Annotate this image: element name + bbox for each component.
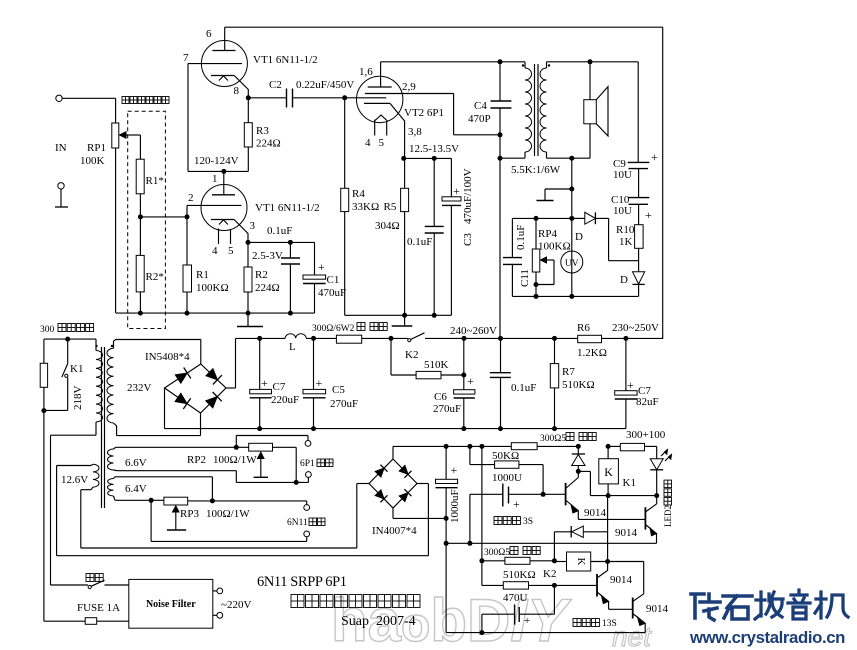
svg-text:8: 8 — [234, 85, 240, 97]
mains terminals 220V — [213, 590, 217, 592]
VT2 screen grid — [365, 93, 454, 95]
T2 polarity marks — [522, 64, 524, 66]
capacitor 1000uF — [445, 446, 447, 479]
T1 polarity marks — [95, 345, 97, 347]
svg-text:+: + — [627, 378, 634, 392]
bridge rectifier IN4007 frame — [369, 459, 417, 508]
svg-text:C1: C1 — [327, 274, 340, 286]
resistor R5 — [404, 158, 406, 188]
ground symbol stage2 — [404, 315, 406, 326]
minus rail — [446, 542, 656, 544]
label delay 3S — [494, 517, 502, 525]
VT1b heater pins 4 5 — [218, 229, 220, 245]
transistor Q4 9014 — [632, 598, 634, 619]
right border wire — [662, 27, 664, 338]
dashed selection box — [128, 111, 166, 328]
svg-text:R3: R3 — [256, 125, 269, 137]
mains switch — [88, 585, 91, 588]
6N11 heater terminal B — [304, 531, 310, 537]
secondary ground hook — [571, 158, 573, 296]
fuse FUSE 1A — [85, 618, 97, 625]
svg-text:12.5-13.5V: 12.5-13.5V — [409, 143, 459, 155]
potentiometer RP4 100K — [535, 218, 537, 249]
svg-text:10U: 10U — [613, 169, 632, 181]
svg-text:3S: 3S — [523, 517, 533, 527]
svg-text:6.6V: 6.6V — [125, 457, 147, 469]
triode VT1a envelope — [201, 41, 247, 87]
noise filter box — [129, 579, 213, 628]
svg-text:224Ω: 224Ω — [255, 282, 280, 294]
label balance note — [122, 97, 129, 104]
svg-text:R10: R10 — [616, 224, 635, 236]
RP2 wiper ground — [258, 452, 265, 458]
svg-text:220uF: 220uF — [271, 394, 299, 406]
svg-text:100Ω/1W: 100Ω/1W — [206, 508, 250, 520]
svg-text:0.1uF: 0.1uF — [511, 382, 536, 394]
svg-text:304Ω: 304Ω — [375, 220, 400, 232]
potentiometer RP2 hum — [249, 443, 273, 451]
wire RP4 top — [512, 217, 571, 219]
VT2 cathode — [364, 102, 390, 104]
resistor 510K timing — [481, 561, 483, 586]
svg-text:+: + — [316, 376, 323, 390]
6N11 heater terminal A — [306, 501, 308, 505]
resistor 300ohm 5 parallel B — [482, 560, 505, 562]
svg-text:6N11: 6N11 — [287, 518, 308, 528]
svg-text:3: 3 — [250, 220, 256, 232]
svg-text:net: net — [612, 621, 652, 650]
svg-text:K2: K2 — [405, 349, 418, 361]
svg-text:9014: 9014 — [584, 507, 607, 519]
resistor 300 mains — [43, 339, 45, 363]
svg-text:9014: 9014 — [610, 574, 633, 586]
svg-text:5.5K:1/6W: 5.5K:1/6W — [511, 164, 561, 176]
svg-text:9014: 9014 — [615, 527, 638, 539]
svg-text:300Ω5: 300Ω5 — [540, 434, 566, 444]
mains switch side wire — [51, 434, 97, 436]
svg-text:82uF: 82uF — [636, 396, 659, 408]
node R1*/R2* — [138, 214, 143, 219]
svg-text:218V: 218V — [72, 386, 84, 411]
mains left wire fuse side — [43, 411, 45, 622]
svg-text:~220V: ~220V — [221, 599, 251, 611]
VT1b grid pin2 — [187, 204, 242, 206]
svg-text:4: 4 — [212, 245, 218, 257]
switch K2 contact — [408, 339, 411, 342]
svg-text:C5: C5 — [332, 384, 345, 396]
svg-text:RP3: RP3 — [180, 508, 199, 520]
flyback diode relay K1 — [577, 446, 579, 454]
svg-text:1K: 1K — [619, 236, 633, 248]
bridge2 AC wires — [357, 483, 369, 485]
svg-text:+: + — [451, 463, 458, 477]
svg-text:LED2: LED2 — [663, 505, 673, 527]
svg-text:R1: R1 — [196, 269, 209, 281]
wire grid pin7 down — [187, 64, 189, 172]
VT1a grid — [188, 63, 242, 65]
secondary bottom wire — [589, 124, 591, 158]
diode D upper — [572, 217, 585, 219]
svg-text:270uF: 270uF — [433, 403, 461, 415]
main ground rail — [165, 428, 626, 430]
svg-text:120-124V: 120-124V — [194, 155, 239, 167]
resistor R2 — [247, 242, 249, 267]
svg-text:1: 1 — [212, 173, 218, 185]
svg-text:224Ω: 224Ω — [256, 138, 281, 150]
VT2 plate wire — [381, 61, 525, 63]
bridge2 plus wire — [392, 446, 394, 459]
choke L — [285, 334, 306, 339]
resistor R2* — [139, 217, 141, 256]
svg-text:510KΩ: 510KΩ — [503, 569, 536, 581]
transformer T1 primary 218V — [95, 339, 97, 350]
input ground terminal — [58, 183, 64, 189]
svg-text:R2*: R2* — [146, 271, 164, 283]
switch K1 contact — [67, 339, 69, 364]
input terminal J1 — [56, 95, 62, 101]
svg-text:470uF: 470uF — [318, 287, 346, 299]
6.4V bottom wire RP3 — [115, 499, 164, 501]
svg-text:K1: K1 — [70, 363, 83, 375]
ground rail stage1 — [116, 312, 315, 314]
resistor R10 1K — [638, 204, 640, 224]
svg-text:VT1 6N11-1/2: VT1 6N11-1/2 — [253, 54, 318, 66]
svg-text:L: L — [289, 341, 296, 353]
svg-text:+: + — [645, 208, 652, 222]
svg-text:Noise Filter: Noise Filter — [146, 599, 196, 610]
VT2 control grid — [345, 97, 387, 99]
svg-text:232V: 232V — [127, 382, 152, 394]
screen wire to B+ — [453, 94, 455, 135]
6P1 heater terminal A — [305, 441, 311, 447]
node X2 column — [553, 532, 555, 561]
svg-text:9014: 9014 — [646, 603, 669, 615]
plus feed column block2 — [481, 446, 483, 560]
resistor R1* — [136, 159, 144, 194]
RP3 wiper ground — [173, 506, 180, 512]
resistor 50K — [469, 446, 471, 464]
DC plus rail — [393, 445, 511, 447]
6N11 heater lower wire — [150, 500, 152, 541]
svg-text:K: K — [575, 558, 587, 566]
svg-text:RP1: RP1 — [87, 142, 106, 154]
svg-text:+: + — [513, 497, 520, 511]
svg-text:C6: C6 — [434, 391, 447, 403]
VT1a cathode — [211, 75, 234, 77]
T1 core — [101, 347, 103, 508]
bottom minus rail — [446, 632, 645, 634]
capacitor C6 270uF — [463, 338, 465, 389]
block1 output to block2 column — [607, 496, 609, 562]
svg-text:2: 2 — [188, 192, 194, 204]
svg-text:K1: K1 — [623, 477, 636, 489]
svg-text:240~260V: 240~260V — [450, 325, 497, 337]
bridge minus wire — [164, 388, 166, 429]
svg-text:RP4: RP4 — [538, 228, 557, 240]
svg-text:50KΩ: 50KΩ — [492, 450, 519, 462]
6P1 heater terminal B — [306, 472, 312, 478]
svg-text:R1*: R1* — [146, 175, 164, 187]
svg-text:+: + — [318, 260, 325, 274]
capacitor 0.1uF cathode2 — [433, 158, 435, 226]
blue logo crystalradio — [691, 590, 848, 620]
svg-text:510K: 510K — [424, 359, 449, 371]
svg-text:VT1 6N11-1/2: VT1 6N11-1/2 — [255, 202, 320, 214]
svg-text:13S: 13S — [602, 619, 617, 629]
capacitor 1000U timing — [469, 494, 471, 543]
resistor 300ohm/6W — [336, 335, 361, 343]
VT1b plate pin1 — [223, 171, 225, 194]
resistor R1 — [186, 217, 188, 265]
svg-text:100Ω/1W: 100Ω/1W — [213, 454, 257, 466]
capacitor C4 470P — [499, 62, 501, 101]
svg-text:C4: C4 — [474, 100, 487, 112]
svg-text:R5: R5 — [384, 201, 397, 213]
wire Q1 collector to relay node — [578, 470, 590, 472]
svg-text:Suap 2007-4: Suap 2007-4 — [341, 614, 416, 629]
svg-text:470P: 470P — [468, 113, 491, 125]
svg-text:C3: C3 — [462, 233, 474, 246]
resistor 510K bypass — [390, 338, 392, 375]
svg-text:C7: C7 — [273, 381, 286, 393]
LED chain — [650, 459, 663, 470]
T2 secondary — [546, 62, 548, 68]
capacitor C3 470uF/100V — [450, 158, 452, 196]
top B+ rail — [225, 26, 663, 28]
title line 2 — [291, 595, 304, 608]
triode VT1b envelope — [201, 185, 247, 231]
capacitor C10 10U — [638, 169, 640, 198]
transistor Q3 9014 — [596, 574, 598, 597]
node detector — [569, 216, 574, 221]
svg-text:2.5-3V: 2.5-3V — [252, 250, 283, 262]
svg-text:IN: IN — [55, 142, 67, 154]
capacitor 0.1uF filter — [500, 338, 502, 372]
resistor R4 — [344, 98, 346, 189]
svg-text:D: D — [620, 274, 628, 286]
T1 winding 6.6V — [114, 447, 116, 449]
svg-text:300Ω/6W2: 300Ω/6W2 — [312, 324, 355, 334]
6P1 heater upper wire — [235, 436, 237, 448]
VT2 plate — [380, 62, 382, 87]
svg-text:230~250V: 230~250V — [612, 322, 659, 334]
svg-text:C2: C2 — [269, 79, 282, 91]
relay coil K1 — [599, 459, 619, 484]
svg-text:IN4007*4: IN4007*4 — [372, 525, 417, 537]
UV bottom rail — [512, 295, 638, 297]
T2 core — [534, 64, 536, 156]
potentiometer RP3 hum — [164, 497, 188, 505]
wire diode to R10 bottom — [608, 218, 610, 260]
svg-text:12.6V: 12.6V — [61, 474, 88, 486]
flyback diode relay K2 — [554, 531, 571, 533]
transistor Q2 9014 — [644, 507, 646, 529]
node 8 — [246, 95, 251, 100]
capacitor C7 220uF — [257, 336, 262, 341]
svg-text:300: 300 — [40, 325, 55, 335]
svg-text:510KΩ: 510KΩ — [562, 379, 595, 391]
potentiometer RP1 — [115, 98, 117, 123]
svg-text:+: + — [524, 615, 530, 627]
VT2 heater pins 4 5 — [374, 120, 376, 136]
svg-text:1000uF: 1000uF — [449, 489, 461, 523]
T1 secondary 232V — [113, 341, 115, 348]
bridge AC bottom wire — [117, 435, 201, 437]
svg-text:3,8: 3,8 — [408, 126, 422, 138]
svg-text:R6: R6 — [577, 322, 590, 334]
svg-text:100K: 100K — [80, 155, 105, 167]
T1 winding 6.4V — [114, 477, 116, 479]
svg-text:300Ω5: 300Ω5 — [484, 548, 510, 558]
bridge rectifier IN5408 frame — [200, 340, 202, 365]
cathode node line — [404, 157, 452, 159]
svg-text:+: + — [453, 184, 460, 198]
svg-text:K2: K2 — [543, 568, 556, 580]
svg-text:R7: R7 — [562, 366, 575, 378]
svg-text:5: 5 — [228, 245, 234, 257]
svg-text:100KΩ: 100KΩ — [538, 241, 571, 253]
bridge2 minus wire — [392, 508, 394, 518]
svg-text:0.1uF: 0.1uF — [267, 225, 292, 237]
svg-text:0.1uF: 0.1uF — [515, 225, 527, 250]
svg-text:R4: R4 — [352, 188, 365, 200]
node 3 wire — [246, 240, 251, 245]
svg-text:470uF/100V: 470uF/100V — [462, 168, 474, 224]
capacitor C11 0.1uF — [511, 218, 513, 257]
svg-text:10U: 10U — [613, 205, 632, 217]
B+ rail 240-260V — [236, 337, 286, 339]
svg-text:33KΩ: 33KΩ — [352, 201, 379, 213]
label delay 13S — [573, 619, 581, 627]
node C2-grid — [342, 95, 347, 100]
svg-text:1000U: 1000U — [492, 472, 522, 484]
resistor R3 — [247, 98, 249, 123]
output transformer T2 primary — [524, 62, 526, 68]
resistor R7 510K — [554, 338, 556, 363]
svg-text:www.crystalradio.cn: www.crystalradio.cn — [689, 628, 845, 647]
RP1 wiper arrow — [120, 132, 127, 138]
ground symbol stage1 — [247, 313, 249, 326]
svg-text:6: 6 — [206, 28, 212, 40]
resistor 300ohm 5 parallel A — [511, 443, 537, 450]
svg-text:RP2: RP2 — [187, 454, 206, 466]
svg-text:7: 7 — [183, 52, 189, 64]
VT2 beam plates — [374, 115, 388, 122]
svg-text:+: + — [261, 376, 268, 390]
VT1b cathode pin3 — [211, 219, 234, 221]
svg-text:6P1: 6P1 — [300, 459, 315, 469]
capacitor C2 — [248, 97, 286, 99]
6.4V top wire — [115, 476, 212, 478]
svg-text:VT2 6P1: VT2 6P1 — [404, 107, 444, 119]
svg-text:6.4V: 6.4V — [125, 483, 147, 495]
speaker — [589, 62, 591, 100]
svg-text:5: 5 — [379, 137, 385, 149]
svg-text:K: K — [604, 465, 613, 479]
resistor R6 1.2K — [578, 335, 602, 342]
capacitor 470U timing — [482, 613, 515, 615]
svg-text:270uF: 270uF — [330, 398, 358, 410]
svg-text:100KΩ: 100KΩ — [196, 282, 229, 294]
capacitor C1 470uF — [314, 242, 316, 275]
svg-text:1,6: 1,6 — [359, 66, 373, 78]
svg-text:IN5408*4: IN5408*4 — [145, 351, 190, 363]
svg-text:+: + — [651, 150, 658, 164]
secondary top wire — [547, 61, 639, 63]
capacitor C7 82uF — [625, 338, 627, 390]
svg-text:D: D — [575, 231, 583, 243]
resistor 300+100 — [608, 445, 620, 447]
capacitor 0.1uF cathode1 — [288, 240, 293, 245]
diode D lower — [638, 261, 640, 272]
capacitor C5 270uF — [311, 336, 316, 341]
svg-text:2,9: 2,9 — [402, 81, 416, 93]
svg-text:0.1uF: 0.1uF — [407, 236, 432, 248]
tetrode VT2 envelope — [357, 76, 403, 122]
T1 winding 12.6V — [93, 464, 99, 487]
ground rail stage2 — [345, 314, 452, 316]
svg-text:R2: R2 — [255, 269, 268, 281]
svg-text:1.2KΩ: 1.2KΩ — [577, 347, 607, 359]
Q1 emitter to Q2 base — [577, 511, 579, 520]
svg-text:0.22uF/450V: 0.22uF/450V — [296, 79, 354, 91]
svg-text:4: 4 — [365, 137, 371, 149]
6.6V bottom wire — [114, 469, 118, 472]
primary top wire — [44, 338, 96, 340]
bridge diodes IN5408 — [175, 373, 187, 383]
svg-text:470U: 470U — [503, 592, 528, 604]
svg-text:6N11 SRPP 6P1: 6N11 SRPP 6P1 — [257, 574, 347, 590]
wire 120V node — [188, 170, 248, 172]
svg-text:300+100: 300+100 — [626, 429, 666, 441]
transistor Q1 9014 — [543, 493, 566, 495]
svg-text:UV: UV — [565, 259, 579, 269]
VT1a plate — [224, 27, 226, 50]
svg-text:FUSE 1A: FUSE 1A — [77, 602, 120, 614]
UV meter M1 — [561, 251, 583, 273]
svg-text:C11: C11 — [519, 269, 531, 287]
bridge plus wire — [226, 387, 236, 389]
capacitor C9 10U — [637, 62, 639, 163]
svg-text:+: + — [467, 374, 474, 388]
relay coil K2 — [567, 552, 591, 571]
bridge diodes IN4007 — [375, 468, 384, 477]
